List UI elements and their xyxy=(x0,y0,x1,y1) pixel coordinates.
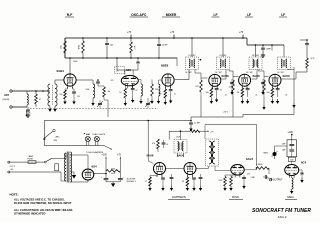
svg-text:.01: .01 xyxy=(255,95,257,97)
transformer T6 power primary xyxy=(65,153,66,181)
trimmer box oscillator xyxy=(115,67,125,74)
ground R22 xyxy=(224,186,226,188)
svg-text:NOTE:: NOTE: xyxy=(10,193,19,197)
capacitor C23 V9 xyxy=(192,175,194,177)
wire to V6 plate circuit xyxy=(306,68,308,72)
svg-text:6AU6: 6AU6 xyxy=(147,154,154,158)
ground C13 xyxy=(216,98,218,100)
svg-text:100: 100 xyxy=(267,92,270,94)
svg-text:100K: 100K xyxy=(86,89,91,91)
svg-text:.01: .01 xyxy=(220,90,223,92)
wire disc output xyxy=(244,169,256,171)
svg-text:100K: 100K xyxy=(73,61,78,63)
resistor R14 V5 cathode xyxy=(241,87,243,89)
svg-text:DIAL LIGHTS: DIAL LIGHTS xyxy=(93,133,106,136)
svg-text:47 K: 47 K xyxy=(311,58,316,60)
capacitor C14 i-f bypass xyxy=(231,79,233,82)
capacitor C24 limiter out xyxy=(200,174,202,177)
tube V4 6AU6 1st i-f amplifier xyxy=(209,74,221,86)
svg-text:OUTPUT: OUTPUT xyxy=(273,180,283,182)
wire B+ top rail xyxy=(65,37,247,39)
resistor R23 disc load 2 xyxy=(230,177,233,187)
resistor R11 grid return xyxy=(200,80,203,92)
tube V1 6AB4 r-f amplifier xyxy=(64,74,76,86)
switch S1 AFC xyxy=(44,131,53,138)
ground L2 xyxy=(92,101,94,103)
svg-text:+75: +75 xyxy=(117,154,122,156)
svg-text:10.7 MC: 10.7 MC xyxy=(252,55,260,57)
lamp I1 dial light xyxy=(86,142,88,146)
capacitor C11 V2 xyxy=(132,84,134,88)
resistor R10 V3 cathode xyxy=(164,87,166,90)
capacitor C21 V8 xyxy=(161,175,163,177)
ground antenna xyxy=(27,113,29,115)
variable capacitor C9 osc tuning xyxy=(146,102,150,104)
svg-text:22K: 22K xyxy=(155,89,159,91)
resistor R19 limiter grid xyxy=(157,139,160,149)
svg-text:27 K: 27 K xyxy=(135,45,137,50)
transformer T6 secondary xyxy=(70,152,71,182)
wire secondary top to rectifier xyxy=(70,154,88,156)
wire V8 to V9 xyxy=(166,167,184,169)
resistor R9 22K xyxy=(151,80,153,85)
wire rectifier cathode to +105 xyxy=(94,173,106,175)
label to all heaters with arrow xyxy=(104,146,112,150)
ground R23 xyxy=(230,186,232,188)
svg-text:I-F: I-F xyxy=(247,13,251,17)
ground V9 cathode xyxy=(186,186,188,188)
inductor L1 antenna coil xyxy=(26,91,28,94)
svg-text:500: 500 xyxy=(290,159,293,161)
wire de-emphasis feed xyxy=(205,124,257,126)
svg-text:AFC: AFC xyxy=(56,136,61,139)
svg-text:220: 220 xyxy=(77,96,80,98)
wire T2 secondary to V4 grid xyxy=(194,70,196,74)
ground V8 cathode xyxy=(149,186,151,188)
tube V9 6AU6 2nd limiter xyxy=(184,163,196,175)
transformer T2 1st i-f 10.7 MC xyxy=(186,57,199,70)
svg-text:ANT: ANT xyxy=(4,94,9,97)
ground V2 cathode xyxy=(124,101,126,103)
wire T8 secondary to V10 xyxy=(214,166,216,171)
wire line bottom xyxy=(10,171,61,173)
svg-text:6BE6: 6BE6 xyxy=(161,64,169,68)
svg-text:20,000 OHM VOLTMETER, NO SIGNA: 20,000 OHM VOLTMETER, NO SIGNAL INPUT xyxy=(14,201,72,205)
wire secondary bottom to rectifier xyxy=(70,181,88,183)
resistor R5 47 xyxy=(35,94,38,104)
svg-text:+105: +105 xyxy=(288,131,294,134)
wire R26 to V11 xyxy=(291,161,293,164)
capacitor C29 reg bypass xyxy=(299,169,302,171)
svg-text:10MF: 10MF xyxy=(266,49,272,51)
capacitor C28 limiter grid xyxy=(162,142,166,144)
ground V5 cathode xyxy=(241,99,243,101)
resistor R20 V8 cathode xyxy=(156,175,158,177)
svg-text:100: 100 xyxy=(206,92,209,94)
resistor R7 grid xyxy=(103,87,106,97)
transformer T6 core xyxy=(66,152,68,183)
ground at C3 xyxy=(262,53,264,55)
capacitor C6 V1 cathode bypass xyxy=(72,87,74,89)
svg-text:6AL5: 6AL5 xyxy=(246,157,253,161)
tube V2 6J6 oscillator xyxy=(121,75,138,85)
svg-text:5-8: 5-8 xyxy=(116,70,118,72)
capacitor C7 coupling xyxy=(97,79,99,81)
resistor R1 decoupling xyxy=(64,38,66,41)
wire T5 primary xyxy=(283,45,285,57)
wire R11 to a-g-c bus xyxy=(200,96,202,117)
lamp I2 dial light xyxy=(95,142,97,146)
svg-text:+105: +105 xyxy=(102,154,108,156)
tube V6 6AU6 3rd i-f amplifier xyxy=(269,74,281,86)
resistor R18 limiter feed xyxy=(190,130,200,133)
capacitor C19 filter 30MF xyxy=(105,174,107,179)
capacitor C26 output coupling xyxy=(264,175,266,179)
tube V3 6BE6 mixer xyxy=(162,74,174,86)
wire V1 plate to interstage xyxy=(77,79,93,81)
svg-text:100K: 100K xyxy=(219,180,224,182)
ground C11 xyxy=(132,98,134,100)
svg-text:+75 V: +75 V xyxy=(223,111,229,113)
fuse F1 xyxy=(28,161,36,164)
svg-text:FUSE: FUSE xyxy=(28,158,34,160)
svg-text:68: 68 xyxy=(182,181,184,183)
ground filter (arrow) xyxy=(111,183,115,187)
svg-text:470: 470 xyxy=(111,80,114,82)
ground C18 xyxy=(190,127,192,129)
capacitor C15 V5 screen xyxy=(246,87,248,89)
capacitor C2 1MF xyxy=(158,37,160,39)
tube V5 6AU6 2nd i-f amplifier xyxy=(239,74,251,86)
transformer T1 r-f input coil xyxy=(48,84,50,106)
wire a-g-c to V8 grid xyxy=(147,120,149,122)
svg-text:ALL CAPACITANCE VALUES IN MMF: ALL CAPACITANCE VALUES IN MMF UNLESS xyxy=(14,208,73,212)
capacitor C16 bypass xyxy=(262,79,264,82)
wire T2 primary to B+ xyxy=(191,38,193,57)
resistor R3 27K xyxy=(130,38,132,42)
transformer T8 discriminator xyxy=(206,139,219,166)
resistor R4 15K xyxy=(306,58,309,68)
svg-text:6X4: 6X4 xyxy=(92,165,98,169)
svg-text:ASC-2: ASC-2 xyxy=(278,215,287,219)
capacitor C5 to ground xyxy=(27,107,29,109)
capacitor C4 screen bypass xyxy=(306,40,308,43)
ground C21 xyxy=(162,186,164,188)
svg-text:+75: +75 xyxy=(210,131,214,133)
svg-text:1M: 1M xyxy=(108,91,111,93)
svg-text:10 MF: 10 MF xyxy=(162,45,168,47)
svg-text:I-F: I-F xyxy=(281,13,285,17)
wire V6 plate up xyxy=(282,78,296,80)
wire T3 secondary to V5 grid xyxy=(228,70,230,72)
svg-text:1K: 1K xyxy=(119,92,122,94)
svg-text:60~: 60~ xyxy=(11,169,15,171)
inductor L5 reg cathode choke xyxy=(291,175,293,178)
variable capacitor C8 r-f tuning xyxy=(98,102,102,104)
wire V5 plate to T4 xyxy=(252,78,257,80)
svg-text:.01: .01 xyxy=(174,94,176,96)
svg-text:OSC-AFC: OSC-AFC xyxy=(131,13,147,17)
svg-text:.1 MF: .1 MF xyxy=(250,177,256,179)
label #44 dial lights xyxy=(84,133,86,134)
resistor R16 V6 cathode xyxy=(272,87,274,89)
capacitor C25 disc xyxy=(243,175,245,177)
svg-text:.01: .01 xyxy=(166,144,168,146)
transformer T3 2nd i-f 10.7 MC xyxy=(217,57,230,70)
wire T4 primary to B+ rail xyxy=(255,45,257,57)
svg-text:REG.: REG. xyxy=(287,195,295,199)
ground V1 bypass xyxy=(73,100,75,102)
svg-text:10 K: 10 K xyxy=(61,44,63,49)
svg-text:4700: 4700 xyxy=(111,168,115,170)
gang link dashed xyxy=(30,108,158,110)
svg-text:MIXER: MIXER xyxy=(166,13,177,17)
svg-text:47K: 47K xyxy=(195,86,199,88)
svg-text:150: 150 xyxy=(60,94,63,96)
wire V3 plate to T2 xyxy=(175,79,189,81)
wire T3 primary to B+ xyxy=(222,38,224,57)
svg-text:350/300 V: 350/300 V xyxy=(126,181,136,183)
resistor R21 V9 cathode xyxy=(186,175,188,177)
ground C23 xyxy=(193,186,195,188)
svg-text:#44: #44 xyxy=(86,133,90,136)
wire a-g-c bus xyxy=(44,120,191,122)
transformer T4 3rd i-f 10.7 MC xyxy=(249,57,262,70)
svg-text:10.7 MC: 10.7 MC xyxy=(185,72,192,74)
svg-text:+75: +75 xyxy=(239,31,244,34)
wire stub at 272 xyxy=(271,44,273,46)
svg-text:2MF: 2MF xyxy=(282,144,285,146)
wire T4 secondary to V6 grid xyxy=(258,70,260,72)
resistor R26 500 (boxed) xyxy=(288,157,295,161)
capacitor C1 500 xyxy=(106,37,108,39)
ground V1 cathode xyxy=(64,100,66,102)
svg-text:470: 470 xyxy=(247,174,250,176)
ground reg xyxy=(291,189,293,191)
svg-text:47K: 47K xyxy=(152,143,156,145)
wire T7 to V9 xyxy=(177,153,179,157)
wire afc feed vertical xyxy=(43,121,45,146)
svg-text:B+: B+ xyxy=(29,113,31,115)
inductor L4 afc coil xyxy=(159,84,160,96)
inductor L2 interstage coil xyxy=(92,80,94,84)
capacitor C13 V4 screen xyxy=(216,87,218,89)
transformer T7 limiter interstage xyxy=(174,140,187,154)
svg-text:DISC.: DISC. xyxy=(232,195,240,199)
transformer T5 4th i-f xyxy=(278,57,291,70)
terminal antenna top xyxy=(10,90,12,92)
ground V6 cathode xyxy=(271,99,273,101)
svg-text:47: 47 xyxy=(136,90,138,92)
svg-text:SW.: SW. xyxy=(54,140,58,142)
svg-text:10.7 MC: 10.7 MC xyxy=(188,55,196,57)
wire grid return to a-g-c xyxy=(104,99,108,101)
capacitor C20 filter 30MF xyxy=(119,171,121,178)
svg-text:6AU6: 6AU6 xyxy=(253,74,261,78)
wire V2 plates to B+ trimmers xyxy=(124,70,126,75)
svg-text:10.7 MC: 10.7 MC xyxy=(246,72,253,74)
resistor R15 grid return 3 xyxy=(263,80,266,92)
svg-text:500: 500 xyxy=(110,45,113,47)
wire R15 to a-g-c bus xyxy=(263,96,265,105)
svg-text:+75: +75 xyxy=(170,31,175,34)
interlock box xyxy=(55,164,59,171)
capacitor C18 25 MF xyxy=(190,120,192,122)
terminal line bottom xyxy=(8,171,10,173)
wire antenna bottom lead xyxy=(12,106,27,108)
terminal OUTPUT xyxy=(269,178,272,181)
svg-text:6AU6: 6AU6 xyxy=(177,154,184,158)
svg-text:MEG: MEG xyxy=(264,153,269,155)
svg-text:6AB4: 6AB4 xyxy=(57,69,65,73)
terminal line top xyxy=(8,161,10,163)
svg-text:47: 47 xyxy=(39,99,42,101)
svg-text:6AU6: 6AU6 xyxy=(283,74,291,78)
tube V11 6C4 regulator xyxy=(285,165,299,176)
svg-text:2MF: 2MF xyxy=(282,150,285,152)
ground V4 cathode xyxy=(210,99,212,101)
svg-text:6AU6: 6AU6 xyxy=(222,74,230,78)
switch S2 on-off xyxy=(36,161,44,163)
tube V8 6AU6 1st limiter xyxy=(154,163,166,175)
svg-text:68: 68 xyxy=(237,92,239,94)
svg-text:.01: .01 xyxy=(225,95,227,97)
inductor L3 oscillator coil xyxy=(138,79,141,81)
tube V7 6X4 rectifier xyxy=(82,169,94,180)
svg-text:10.7 MC: 10.7 MC xyxy=(277,72,284,74)
capacitor C12 V3 xyxy=(170,87,172,90)
svg-text:+: + xyxy=(123,177,125,179)
svg-text:6C4: 6C4 xyxy=(301,161,307,165)
potentiometer R25 volume xyxy=(273,152,277,156)
wire R13 to a-g-c bus xyxy=(232,96,234,117)
wire V3 grid xyxy=(159,79,162,81)
capacitor C17 V6 screen xyxy=(276,87,278,89)
svg-text:100K: 100K xyxy=(176,137,181,139)
node B+ marker xyxy=(26,111,28,116)
wire V9 plate to T8 xyxy=(196,167,208,169)
tube V10 6AL5 discriminator xyxy=(231,165,244,176)
resistor R12 V4 cathode xyxy=(211,87,213,89)
capacitor C27 dual electrolytic can xyxy=(287,140,297,157)
svg-text:10.7 MC: 10.7 MC xyxy=(219,55,227,57)
svg-text:OTHERWISE INDICATED: OTHERWISE INDICATED xyxy=(14,212,45,216)
resistor R17 filter 4700 10W xyxy=(106,170,120,173)
svg-text:+: + xyxy=(101,177,103,179)
wire V4 plate to T3 xyxy=(221,78,226,80)
resistor R8 V2 cathode xyxy=(124,84,126,88)
svg-text:LIMITERS: LIMITERS xyxy=(172,195,186,199)
svg-text:25 MF: 25 MF xyxy=(194,123,201,125)
svg-text:10.7 MC: 10.7 MC xyxy=(215,72,222,74)
svg-text:I-F: I-F xyxy=(213,13,217,17)
svg-text:1K: 1K xyxy=(159,93,162,95)
wire heater line xyxy=(44,145,104,147)
svg-text:SONOCRAFT FM TUNER: SONOCRAFT FM TUNER xyxy=(252,208,311,214)
wire limiter B+ feed xyxy=(169,130,190,132)
wire filter caps common xyxy=(106,181,120,183)
svg-text:1 MEG: 1 MEG xyxy=(256,164,263,166)
wire V1 plate to B+ rail xyxy=(69,58,71,75)
svg-text:+75: +75 xyxy=(127,31,132,34)
ground V3 cathode xyxy=(164,100,166,102)
wire T5 secondary down to a-g-c xyxy=(287,69,294,71)
wire line top xyxy=(10,161,28,163)
svg-text:4700: 4700 xyxy=(79,45,81,49)
svg-text:(300Ω): (300Ω) xyxy=(3,99,10,101)
ground C12 xyxy=(170,99,172,101)
svg-text:117 V: 117 V xyxy=(9,166,15,168)
resistor R22 disc load 1 xyxy=(232,175,234,177)
capacitor C22 interstage bypass xyxy=(171,174,173,177)
svg-text:47: 47 xyxy=(145,181,147,183)
wire antenna top lead xyxy=(12,90,49,92)
wire B+ second rail xyxy=(65,57,177,59)
capacitor C3 10MF decoupling xyxy=(262,44,264,46)
svg-text:.01: .01 xyxy=(285,95,287,97)
svg-text:ALL VOLTAGES ARE D.C. TO CHASS: ALL VOLTAGES ARE D.C. TO CHASSIS, xyxy=(14,198,65,202)
ground center tap (arrow) xyxy=(70,171,74,173)
resistor R2 4700 xyxy=(82,37,84,39)
resistor R13 grid return 2 xyxy=(232,80,235,92)
wire pot to reg node xyxy=(274,146,276,149)
svg-text:R-F: R-F xyxy=(67,13,73,17)
terminal antenna bottom xyxy=(10,106,12,108)
svg-text:10 W: 10 W xyxy=(111,173,115,175)
resistor R6 V1 cathode xyxy=(66,87,68,89)
trimmer capacitor C10 xyxy=(136,61,139,63)
